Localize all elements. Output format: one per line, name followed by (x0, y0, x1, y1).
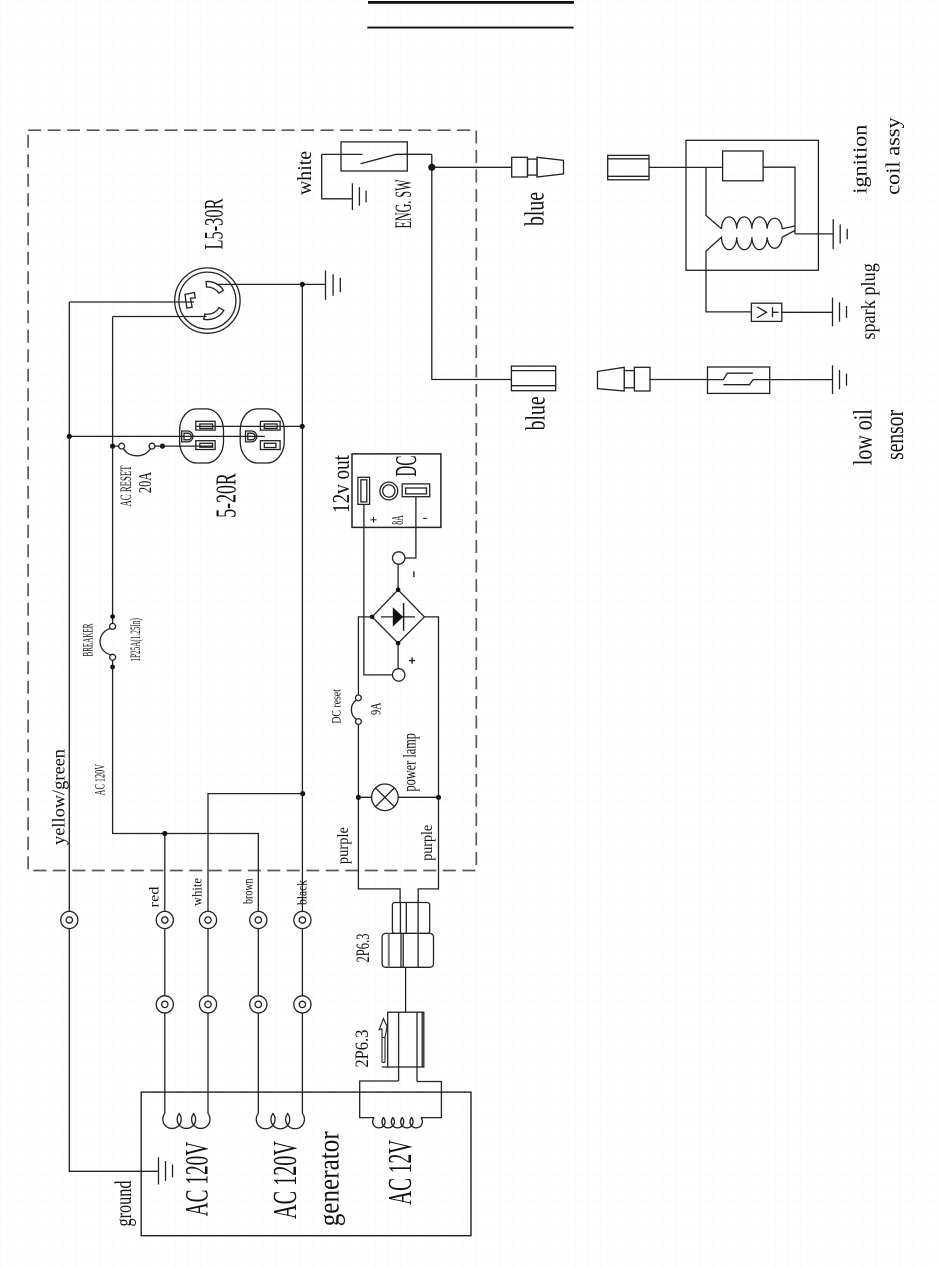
wire hot down to breaker (112, 446, 114, 623)
receptacle L5-30R outer circle (175, 268, 240, 333)
receptacle L5-30R inner circle (179, 272, 236, 329)
wire hot vertical (68, 302, 70, 436)
wire hot to L5-30R (69, 301, 194, 303)
ground low oil (833, 365, 847, 394)
connector 2P6.3 lower body (388, 1012, 424, 1067)
wire slot to minus terminal (405, 497, 416, 558)
svg-text:coil assy: coil assy (884, 117, 905, 195)
DC slot (402, 484, 430, 497)
label plus (371, 517, 377, 523)
sensor contact symbol (708, 373, 770, 385)
title rule thick (368, 1, 574, 4)
ground at L5-30R (326, 271, 341, 300)
wire fuse to plus terminal (364, 504, 393, 675)
terminal minus ring (393, 552, 405, 564)
svg-text:yellow/green: yellow/green (49, 749, 69, 845)
wire primary right to core (763, 167, 795, 234)
wire neutral to L5-30R (113, 316, 207, 318)
wire spark plug to ground (782, 311, 833, 313)
svg-text:low oil: low oil (849, 409, 878, 465)
recep A ground D slot (182, 431, 193, 442)
ENG.SW switch blade (322, 154, 432, 164)
winding AC 120V no.1 (163, 1114, 210, 1129)
low-oil female connector (511, 366, 555, 391)
wire junction to blue connector (432, 166, 512, 168)
node rectifier left (370, 615, 375, 620)
receptacle 5-20R body A (180, 409, 224, 463)
node black junction (300, 791, 305, 796)
node ENG.SW output junction (428, 164, 435, 171)
wire rectifier bottom to plus ring (397, 643, 399, 669)
svg-text:L5-30R: L5-30R (200, 198, 229, 249)
connector 2P6.3 upper inner lines (400, 903, 418, 934)
spark plug box (751, 303, 781, 321)
coil winding upper (722, 217, 796, 229)
breaker contact bottom (110, 654, 116, 660)
breaker arc (100, 629, 111, 655)
svg-text:generator: generator (313, 1131, 346, 1226)
wire rectifier left to DC reset (358, 617, 372, 695)
svg-text:purple: purple (419, 825, 436, 861)
box 12v out (352, 454, 441, 528)
rectifier diode line (381, 616, 415, 618)
connector 2P6.3 upper body bottom (382, 933, 433, 967)
fuse holder (358, 477, 370, 504)
node rectifier bottom (396, 641, 401, 646)
node breaker left junction (110, 444, 115, 449)
svg-text:AC 120V: AC 120V (267, 1141, 304, 1219)
panel dashed border (28, 130, 476, 870)
svg-text:white: white (190, 878, 205, 906)
power lamp X (376, 788, 395, 807)
recep A top slot (196, 421, 215, 430)
node below breaker (110, 665, 115, 670)
wire white corner to black (208, 794, 303, 1114)
node red junction (162, 831, 167, 836)
DC reset contact bottom (356, 719, 362, 725)
bullet connector cone (537, 157, 564, 177)
L5-30R slot top-right (206, 281, 223, 293)
wire earth down (69, 436, 158, 1171)
wire DC reset down to connector (358, 724, 400, 902)
node ground junction (300, 282, 305, 287)
breaker AC RESET arc (124, 449, 151, 456)
svg-text:2P6.3: 2P6.3 (353, 934, 374, 963)
svg-text:sensor: sensor (880, 410, 909, 460)
svg-text:power lamp: power lamp (399, 733, 419, 792)
winding AC 12V (373, 1118, 423, 1128)
DC reset arc (351, 700, 356, 719)
bullet connector blue top: rect1 (512, 157, 528, 177)
DC jack (380, 482, 398, 500)
wire ENG.SW left to ground (322, 154, 352, 198)
svg-text:AC RESET: AC RESET (118, 465, 135, 506)
coil winding lower (706, 231, 795, 252)
recep B ground D slot (246, 431, 257, 442)
coil lead connector (608, 155, 649, 179)
svg-text:DC reset: DC reset (329, 689, 344, 724)
connector 2P6.3 upper body top (392, 903, 429, 934)
wire neutral bus through top slots (196, 425, 302, 427)
ground symbol in generator (159, 1157, 173, 1184)
svg-text:white: white (294, 151, 316, 195)
node top-slot junction (300, 424, 305, 429)
node lamp right (436, 795, 441, 800)
rectifier diamond (372, 590, 424, 643)
label plus sign (409, 658, 415, 664)
power lamp circle (372, 784, 399, 811)
breaker contact top (110, 623, 116, 629)
recep B bottom slot (260, 441, 280, 450)
svg-text:8A: 8A (388, 515, 407, 525)
node above breaker (110, 614, 115, 619)
svg-text:5-20R: 5-20R (212, 473, 243, 518)
svg-text:purple: purple (335, 827, 352, 864)
label minus sign (413, 571, 415, 577)
wire ground bus through D slots (69, 435, 264, 437)
coil primary block (723, 151, 764, 181)
wire coil to spark plug (706, 251, 751, 312)
ground spark plug (833, 298, 847, 327)
wire red down (164, 834, 166, 1114)
low oil sensor box (708, 367, 770, 393)
bullet connector rect2 (528, 159, 538, 175)
svg-text:1P25A(1.25In): 1P25A(1.25In) (128, 618, 144, 662)
svg-text:red: red (147, 886, 162, 907)
rectifier diode triangle (393, 607, 403, 626)
svg-text:black: black (295, 880, 310, 905)
terminal plus ring (393, 669, 405, 681)
svg-text:2P6.3: 2P6.3 (352, 1030, 373, 1068)
wire L5-30R ground out (217, 283, 325, 285)
ground at ENG.SW (352, 183, 366, 210)
node lamp left (356, 795, 361, 800)
wire black down (301, 426, 303, 1113)
node breaker right junction (160, 444, 165, 449)
connector 2P6.3 lower-body inner lines (388, 933, 390, 967)
receptacle 5-20R body B (240, 409, 284, 463)
wire between connectors (405, 967, 407, 1012)
rectifier diode bar (403, 603, 405, 631)
ignition coil assy box (686, 140, 818, 270)
svg-text:AC 12V: AC 12V (382, 1140, 419, 1205)
svg-text:AC 120V: AC 120V (180, 1142, 216, 1217)
svg-text:brown: brown (241, 878, 256, 904)
svg-text:AC 120V: AC 120V (93, 764, 109, 796)
wire to ignition coil (649, 166, 723, 168)
svg-text:BREAKER: BREAKER (81, 624, 97, 657)
wire breaker down to red/brown feed (113, 660, 259, 1113)
recep B top slot (260, 421, 280, 430)
wire core to ground (795, 233, 833, 235)
wire minus ring to rectifier (397, 564, 399, 590)
terminal rings row 2 (156, 996, 311, 1013)
ground ignition coil (833, 219, 847, 249)
svg-text:spark plug: spark plug (859, 263, 880, 340)
label minus (423, 517, 427, 519)
wire rectifier right down (418, 617, 438, 903)
svg-text:blue: blue (520, 192, 550, 226)
svg-text:12v out: 12v out (328, 455, 355, 513)
svg-text:9A: 9A (369, 702, 385, 715)
L5-30R slot bottom (204, 308, 224, 320)
wire sensor to ground (770, 379, 833, 381)
wire breaker stubs (113, 445, 213, 447)
breaker AC RESET contacts (119, 443, 125, 449)
wire neutral vertical (112, 317, 114, 447)
node ground bus junction (67, 434, 72, 439)
low-oil male cone (598, 367, 625, 391)
recep A bottom slot (196, 441, 215, 450)
spark plug gap symbol (757, 307, 779, 318)
node rectifier top (396, 588, 401, 593)
terminal rings row 1 (61, 911, 311, 928)
wire lamp leads (358, 796, 438, 798)
connector 2P6.3 lower inner lines (382, 1012, 422, 1067)
wire connector to AC12V tab (399, 1067, 417, 1082)
svg-text:ENG. SW: ENG. SW (391, 179, 416, 228)
wire ground junction down (301, 284, 303, 426)
AC12V tab outline (360, 1081, 442, 1118)
svg-text:ignition: ignition (851, 124, 872, 193)
winding AC 120V no.2 (256, 1114, 304, 1129)
wire coil left branch (706, 167, 722, 228)
svg-text:DC: DC (388, 456, 423, 477)
svg-text:ground: ground (111, 1180, 136, 1226)
title rule thin (367, 27, 573, 29)
svg-text:blue: blue (521, 396, 551, 430)
switch ENG.SW box (341, 142, 407, 171)
L5-30R slot left hook (185, 293, 195, 309)
wire ENG.SW out to junction (431, 154, 433, 167)
low-oil male rects (624, 371, 634, 388)
generator box (141, 1092, 471, 1236)
arrow on lower connector (379, 1019, 387, 1063)
wire to sensor (650, 379, 708, 381)
wire junction down to low-oil row (432, 167, 512, 379)
DC reset contact top (356, 695, 362, 701)
svg-text:20A: 20A (135, 472, 155, 493)
